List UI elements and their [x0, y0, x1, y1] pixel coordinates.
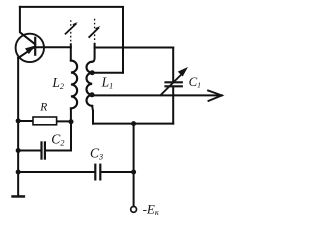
- svg-text:C2: C2: [51, 131, 64, 147]
- svg-text:L2: L2: [51, 75, 64, 91]
- svg-text:C1: C1: [189, 75, 202, 90]
- svg-text:-Eк: -Eк: [143, 201, 159, 217]
- svg-text:L1: L1: [101, 75, 114, 91]
- svg-text:C3: C3: [90, 146, 103, 162]
- svg-text:R: R: [39, 102, 47, 114]
